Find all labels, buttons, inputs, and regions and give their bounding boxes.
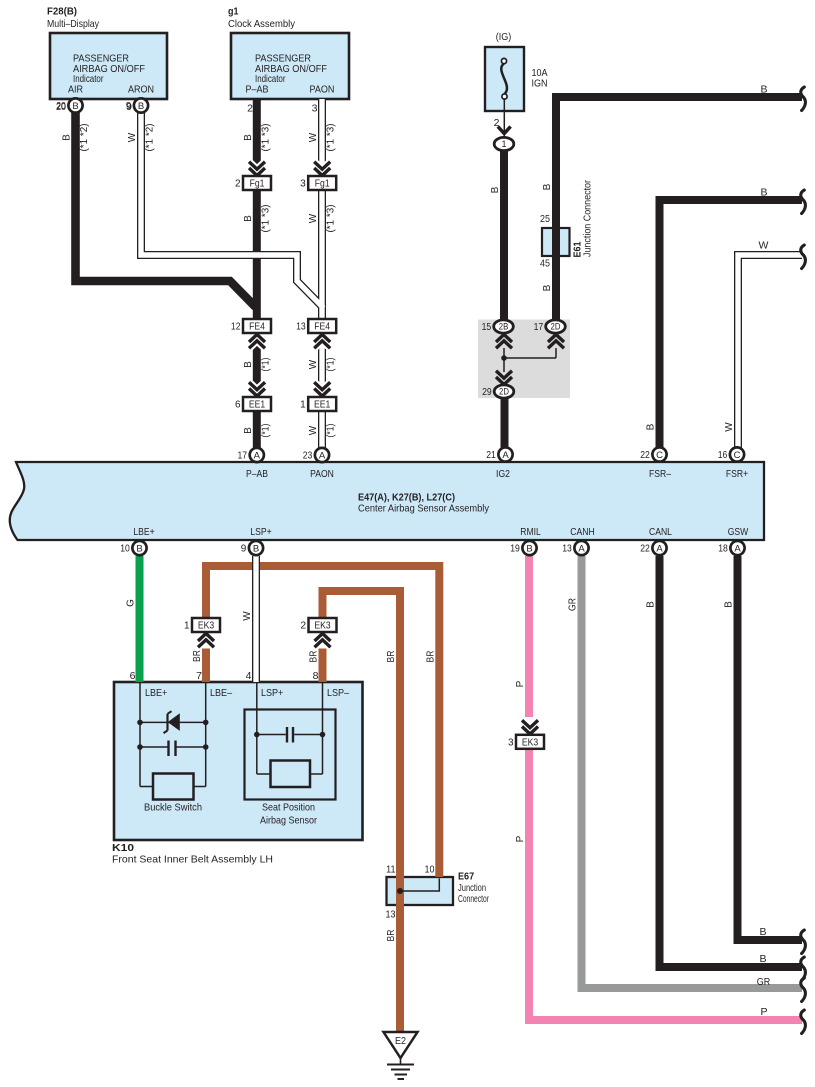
svg-text:13: 13 — [386, 909, 396, 921]
svg-text:B: B — [542, 284, 553, 291]
svg-text:G: G — [126, 599, 137, 607]
svg-text:F28(B): F28(B) — [47, 6, 77, 18]
svg-text:18: 18 — [718, 544, 728, 555]
svg-text:LBE+: LBE+ — [145, 687, 167, 699]
svg-text:ARON: ARON — [128, 84, 154, 96]
svg-text:CANH: CANH — [570, 527, 594, 538]
svg-text:PAON: PAON — [310, 84, 335, 96]
svg-text:(IG): (IG) — [496, 31, 512, 43]
svg-text:P: P — [515, 835, 526, 842]
svg-text:11: 11 — [386, 864, 396, 876]
svg-text:(*1): (*1) — [325, 424, 336, 438]
svg-text:16: 16 — [718, 450, 728, 461]
svg-text:B: B — [526, 543, 532, 554]
svg-text:20: 20 — [56, 101, 66, 113]
svg-text:B: B — [243, 215, 254, 222]
svg-text:(*1): (*1) — [325, 358, 336, 372]
svg-text:EK3: EK3 — [314, 621, 331, 632]
svg-text:22: 22 — [640, 544, 650, 555]
svg-text:PAON: PAON — [310, 469, 334, 480]
svg-text:E67: E67 — [458, 871, 474, 883]
svg-text:B: B — [759, 953, 766, 965]
svg-text:2: 2 — [235, 179, 241, 190]
svg-text:W: W — [308, 425, 319, 435]
svg-text:45: 45 — [540, 258, 550, 270]
svg-text:W: W — [127, 132, 138, 142]
svg-text:3: 3 — [508, 737, 514, 748]
svg-text:10: 10 — [120, 544, 130, 555]
svg-text:Fg1: Fg1 — [250, 179, 265, 190]
svg-text:3: 3 — [300, 179, 306, 190]
svg-text:(*1 *3): (*1 *3) — [325, 205, 336, 233]
svg-text:1: 1 — [184, 621, 190, 632]
svg-text:2B: 2B — [499, 322, 509, 332]
svg-text:13: 13 — [562, 544, 572, 555]
svg-text:LBE–: LBE– — [210, 687, 232, 699]
svg-text:B: B — [243, 134, 254, 141]
svg-text:17: 17 — [238, 451, 248, 462]
svg-text:W: W — [759, 240, 769, 252]
svg-text:EE1: EE1 — [314, 400, 331, 411]
svg-text:B: B — [490, 186, 501, 193]
svg-text:9: 9 — [241, 544, 247, 555]
svg-text:Junction Connector: Junction Connector — [583, 179, 594, 257]
svg-text:E47(A), K27(B), L27(C): E47(A), K27(B), L27(C) — [358, 493, 455, 504]
svg-text:FSR+: FSR+ — [726, 469, 748, 480]
svg-text:GR: GR — [757, 976, 771, 988]
svg-text:6: 6 — [130, 670, 136, 682]
svg-text:19: 19 — [510, 544, 520, 555]
svg-text:C: C — [656, 450, 663, 461]
svg-text:12: 12 — [231, 322, 241, 333]
svg-text:A: A — [734, 543, 741, 554]
svg-text:29: 29 — [482, 387, 492, 398]
svg-text:W: W — [242, 611, 253, 621]
svg-text:LSP+: LSP+ — [261, 687, 283, 699]
svg-text:P: P — [760, 1006, 767, 1018]
svg-text:B: B — [760, 84, 767, 96]
svg-text:25: 25 — [540, 213, 550, 225]
svg-text:1: 1 — [501, 139, 506, 149]
svg-text:9: 9 — [126, 101, 132, 113]
svg-text:FSR–: FSR– — [649, 469, 671, 480]
svg-text:RMIL: RMIL — [520, 527, 541, 538]
svg-text:LBE+: LBE+ — [133, 527, 154, 538]
svg-text:B: B — [760, 187, 767, 199]
svg-text:(*1): (*1) — [261, 358, 272, 372]
svg-text:2D: 2D — [499, 387, 509, 397]
svg-text:g1: g1 — [228, 6, 239, 18]
svg-text:EE1: EE1 — [249, 400, 266, 411]
svg-text:23: 23 — [303, 451, 313, 462]
svg-text:P: P — [515, 680, 526, 687]
svg-text:FE4: FE4 — [314, 322, 330, 333]
svg-text:W: W — [724, 422, 735, 432]
svg-text:15: 15 — [482, 322, 492, 333]
svg-text:K10: K10 — [112, 842, 134, 854]
svg-text:BR: BR — [386, 930, 397, 942]
svg-text:(*1 *3): (*1 *3) — [325, 124, 336, 152]
svg-text:W: W — [308, 359, 319, 369]
svg-text:BR: BR — [309, 651, 320, 663]
svg-text:B: B — [253, 543, 259, 554]
svg-text:Connector: Connector — [458, 893, 489, 905]
svg-text:GSW: GSW — [728, 527, 749, 538]
svg-text:Clock Assembly: Clock Assembly — [228, 18, 296, 30]
svg-text:21: 21 — [486, 450, 496, 461]
svg-text:22: 22 — [640, 450, 650, 461]
svg-text:2: 2 — [494, 117, 500, 129]
svg-text:B: B — [243, 361, 254, 368]
svg-text:Front Seat Inner Belt Assembly: Front Seat Inner Belt Assembly LH — [112, 854, 273, 866]
svg-text:EK3: EK3 — [522, 737, 539, 748]
svg-text:A: A — [502, 450, 509, 461]
svg-text:B: B — [62, 134, 73, 141]
svg-text:7: 7 — [196, 670, 202, 682]
svg-text:Seat Position: Seat Position — [262, 802, 315, 814]
svg-text:B: B — [646, 423, 657, 430]
svg-text:B: B — [243, 427, 254, 434]
svg-text:W: W — [308, 213, 319, 223]
svg-text:B: B — [724, 601, 735, 608]
svg-text:GR: GR — [568, 598, 579, 611]
svg-text:IG2: IG2 — [496, 469, 510, 480]
svg-text:Airbag Sensor: Airbag Sensor — [260, 815, 317, 827]
svg-text:B: B — [138, 101, 144, 112]
svg-text:W: W — [308, 132, 319, 142]
svg-text:2: 2 — [300, 621, 306, 632]
svg-text:Buckle Switch: Buckle Switch — [144, 802, 202, 814]
svg-text:A: A — [656, 543, 663, 554]
svg-text:A: A — [319, 450, 326, 461]
svg-text:P–AB: P–AB — [246, 469, 268, 480]
svg-text:P–AB: P–AB — [245, 84, 268, 96]
svg-text:B: B — [759, 926, 766, 938]
svg-text:13: 13 — [296, 322, 306, 333]
svg-text:8: 8 — [313, 670, 319, 682]
svg-text:BR: BR — [425, 651, 436, 663]
svg-text:FE4: FE4 — [249, 322, 265, 333]
svg-text:BR: BR — [386, 651, 397, 663]
svg-text:6: 6 — [235, 400, 241, 411]
svg-text:A: A — [578, 543, 585, 554]
svg-text:2D: 2D — [551, 322, 561, 332]
svg-text:AIR: AIR — [68, 84, 83, 96]
svg-text:1: 1 — [300, 400, 306, 411]
svg-text:Fg1: Fg1 — [315, 179, 330, 190]
svg-text:B: B — [542, 183, 553, 190]
svg-text:(*1 *2): (*1 *2) — [144, 124, 155, 152]
svg-text:17: 17 — [534, 322, 544, 333]
svg-text:Center Airbag Sensor Assembly: Center Airbag Sensor Assembly — [358, 504, 489, 515]
svg-text:(*1 *2): (*1 *2) — [79, 124, 90, 152]
svg-text:B: B — [72, 101, 78, 112]
svg-text:3: 3 — [312, 103, 318, 115]
svg-text:(*1 *3): (*1 *3) — [261, 205, 272, 233]
svg-text:C: C — [734, 450, 741, 461]
svg-text:IGN: IGN — [532, 78, 548, 90]
svg-text:Multi–Display: Multi–Display — [47, 18, 100, 30]
svg-text:EK3: EK3 — [198, 621, 215, 632]
svg-text:E2: E2 — [395, 1035, 406, 1047]
svg-text:CANL: CANL — [649, 527, 672, 538]
svg-text:BR: BR — [192, 650, 203, 662]
svg-text:A: A — [254, 450, 261, 461]
svg-text:LSP+: LSP+ — [250, 527, 271, 538]
svg-text:10: 10 — [425, 864, 435, 876]
svg-text:(*1 *3): (*1 *3) — [261, 124, 272, 152]
svg-text:4: 4 — [246, 670, 252, 682]
svg-text:2: 2 — [247, 103, 253, 115]
svg-text:B: B — [646, 601, 657, 608]
svg-text:B: B — [136, 543, 142, 554]
svg-text:LSP–: LSP– — [327, 687, 349, 699]
svg-text:(*1): (*1) — [261, 424, 272, 438]
